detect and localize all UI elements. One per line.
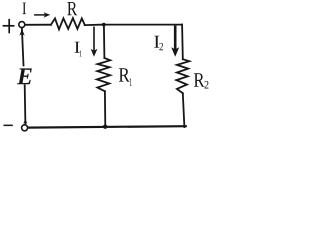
- label E (emf label): [17, 68, 32, 84]
- resistor R: [51, 18, 85, 29]
- current arrow I (top left, pointing right): [34, 12, 50, 17]
- - terminal (open circle): [22, 125, 28, 131]
- wire top from node A to top-right corner: [104, 24, 182, 26]
- label I2 subscript 2: [159, 43, 163, 50]
- wire R1 branch top: [103, 25, 106, 58]
- wire R2 branch bottom: [183, 93, 185, 127]
- label I (current label): [23, 3, 27, 15]
- label minus sign: [4, 125, 13, 127]
- label R2 letter R: [194, 73, 205, 87]
- wire from resistor R to node A: [85, 24, 104, 27]
- bottom junction dot: [103, 125, 107, 129]
- arrowhead up near - terminal: [23, 119, 27, 124]
- wire source branch lower (E to - terminal): [24, 85, 27, 124]
- wire R2 branch top: [181, 25, 184, 60]
- arrowhead up near + terminal: [19, 29, 24, 36]
- current arrow I1 (pointing down): [91, 27, 98, 57]
- wire R1 branch bottom: [104, 91, 106, 127]
- label R1 subscript 1: [130, 78, 132, 86]
- label I1 subscript 1: [80, 51, 82, 57]
- wire bottom: [28, 126, 186, 127]
- resistor R2: [176, 59, 189, 93]
- label plus sign: [3, 19, 15, 33]
- wire from + terminal to resistor R: [25, 24, 51, 26]
- label I1 letter I: [75, 42, 80, 53]
- label R (resistor label): [67, 2, 77, 15]
- label R2 subscript 2: [205, 81, 209, 89]
- resistor R1: [97, 58, 110, 91]
- wire source branch upper (+ terminal to E): [22, 28, 24, 65]
- label I2 letter I: [154, 36, 159, 48]
- current arrow I2 (pointing down, bold): [171, 26, 179, 57]
- label R1 letter R: [119, 68, 130, 81]
- + terminal (open circle): [19, 22, 25, 28]
- node A junction dot: [102, 23, 106, 27]
